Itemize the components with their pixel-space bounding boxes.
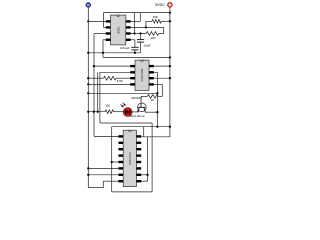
- svg-text:10K: 10K: [153, 15, 159, 19]
- svg-text:7555: 7555: [116, 26, 120, 33]
- svg-text:2N2222: 2N2222: [131, 96, 142, 100]
- svg-text:74HC4020: 74HC4020: [128, 152, 132, 166]
- svg-text:1K: 1K: [151, 98, 155, 102]
- svg-text:MOC3020: MOC3020: [140, 69, 144, 82]
- svg-text:5VDC: 5VDC: [155, 3, 165, 7]
- svg-text:100: 100: [105, 103, 110, 107]
- svg-text:10K: 10K: [150, 36, 156, 40]
- svg-text:10µF: 10µF: [143, 44, 150, 48]
- svg-text:5.6K: 5.6K: [117, 79, 123, 83]
- svg-text:0.01µF: 0.01µF: [120, 46, 130, 50]
- svg-text:Red 20ma: Red 20ma: [130, 114, 145, 118]
